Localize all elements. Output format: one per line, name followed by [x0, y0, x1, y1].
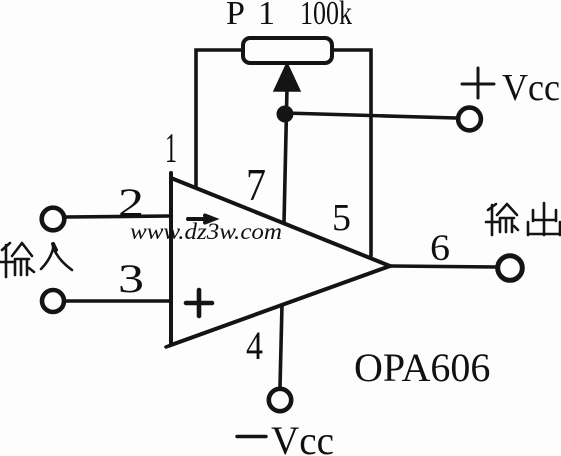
label + Vcc: [462, 67, 560, 109]
wire pin 4 to -Vcc: [280, 305, 282, 387]
wire pot left lead to pin 1: [196, 50, 243, 188]
wire pot right lead to pin 5: [332, 50, 371, 256]
inverting input minus marker: [188, 216, 214, 223]
wire pin 2 input: [65, 216, 171, 217]
svg-text:1: 1: [165, 126, 177, 172]
label shu-chu (output): [486, 203, 560, 235]
+Vcc terminal: [458, 108, 481, 131]
op-amp bottom-left corner overshoot: [166, 345, 171, 347]
wire pin 3 input: [65, 299, 171, 303]
svg-text:6: 6: [430, 228, 450, 269]
potentiometer P1 body: [243, 38, 332, 63]
wire wiper to pin 7: [284, 88, 287, 223]
value label P1 100k: [226, 0, 352, 32]
svg-text:7: 7: [246, 159, 266, 210]
label shu-ru (input): [0, 243, 72, 277]
op-amp U1 OPA606: [171, 173, 390, 345]
svg-text:Vcc: Vcc: [271, 418, 334, 456]
non-inverting input plus marker: [186, 290, 212, 316]
svg-text:4: 4: [246, 323, 263, 368]
svg-text:P1: P1: [226, 0, 275, 32]
input terminal lower: [42, 290, 64, 312]
svg-text:5: 5: [332, 197, 351, 239]
wiper arrow of P1: [274, 63, 300, 91]
label - Vcc: [237, 418, 334, 456]
-Vcc terminal: [269, 389, 291, 411]
svg-text:OPA606: OPA606: [354, 345, 490, 390]
node junction dot: [277, 106, 294, 123]
svg-text:www.dz3w.com: www.dz3w.com: [130, 219, 282, 244]
input terminal upper: [42, 208, 65, 231]
wire pin 6 output: [390, 266, 497, 267]
svg-text:Vcc: Vcc: [502, 67, 560, 109]
wire junction to +Vcc terminal: [285, 113, 456, 118]
svg-text:100k: 100k: [300, 0, 352, 32]
output terminal: [498, 256, 523, 281]
svg-text:3: 3: [118, 256, 144, 301]
